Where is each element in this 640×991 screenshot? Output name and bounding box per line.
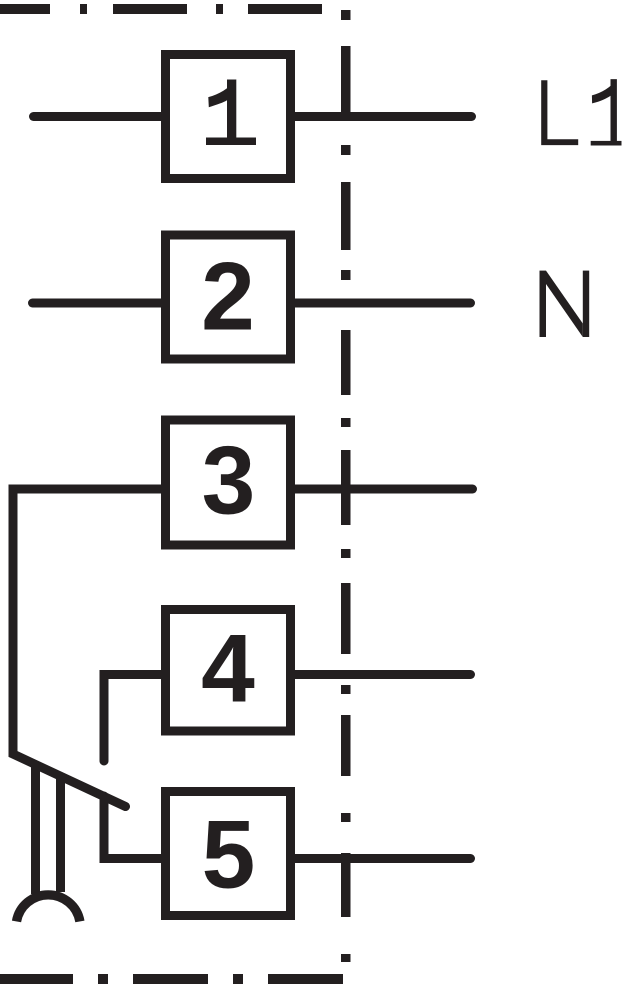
svg-text:5: 5 [202,802,256,909]
svg-text:2: 2 [201,244,255,351]
svg-text:4: 4 [201,616,255,723]
svg-text:3: 3 [202,428,256,535]
